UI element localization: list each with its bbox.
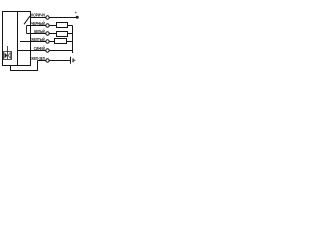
wire row6 yellow-green (38, 60, 46, 62)
terminal circle row1 (46, 16, 49, 19)
common rail (72, 26, 74, 54)
earth ground symbol (70, 57, 72, 64)
svg-text:БЕЛЫЙ: БЕЛЫЙ (34, 29, 45, 34)
earth path from case (11, 61, 38, 71)
load resistor row2 (57, 23, 68, 28)
+U junction dot (76, 16, 79, 19)
internal vertical link rows 2-3 (26, 26, 28, 34)
wire row4 yellow (20, 41, 46, 43)
wire row2 black (27, 25, 46, 27)
load resistor row3 (57, 32, 68, 37)
svg-text:ЖЕЛТЫЙ: ЖЕЛТЫЙ (31, 37, 45, 42)
svg-text:ЖЕЛ-ЗЕЛ: ЖЕЛ-ЗЕЛ (31, 56, 45, 61)
symbol center line with stub up (7, 46, 9, 60)
wire row1 brown (30, 17, 46, 19)
internal divider (17, 12, 19, 66)
load resistor row4 (55, 39, 67, 44)
wire row3 white (27, 33, 46, 35)
proximity sensor symbol square (4, 52, 12, 60)
sensor body outer box (3, 12, 31, 66)
symbol right hollow triangle (8, 53, 11, 59)
switch contact diagonal (24, 16, 30, 24)
wire row5 blue (18, 50, 46, 52)
svg-text:ЧЕРНЫЙ: ЧЕРНЫЙ (31, 21, 45, 26)
svg-text:КОРИЧН: КОРИЧН (31, 13, 45, 18)
plus mark (75, 11, 77, 13)
svg-text:СИНИЙ: СИНИЙ (34, 46, 45, 51)
symbol left filled triangle (5, 53, 8, 59)
